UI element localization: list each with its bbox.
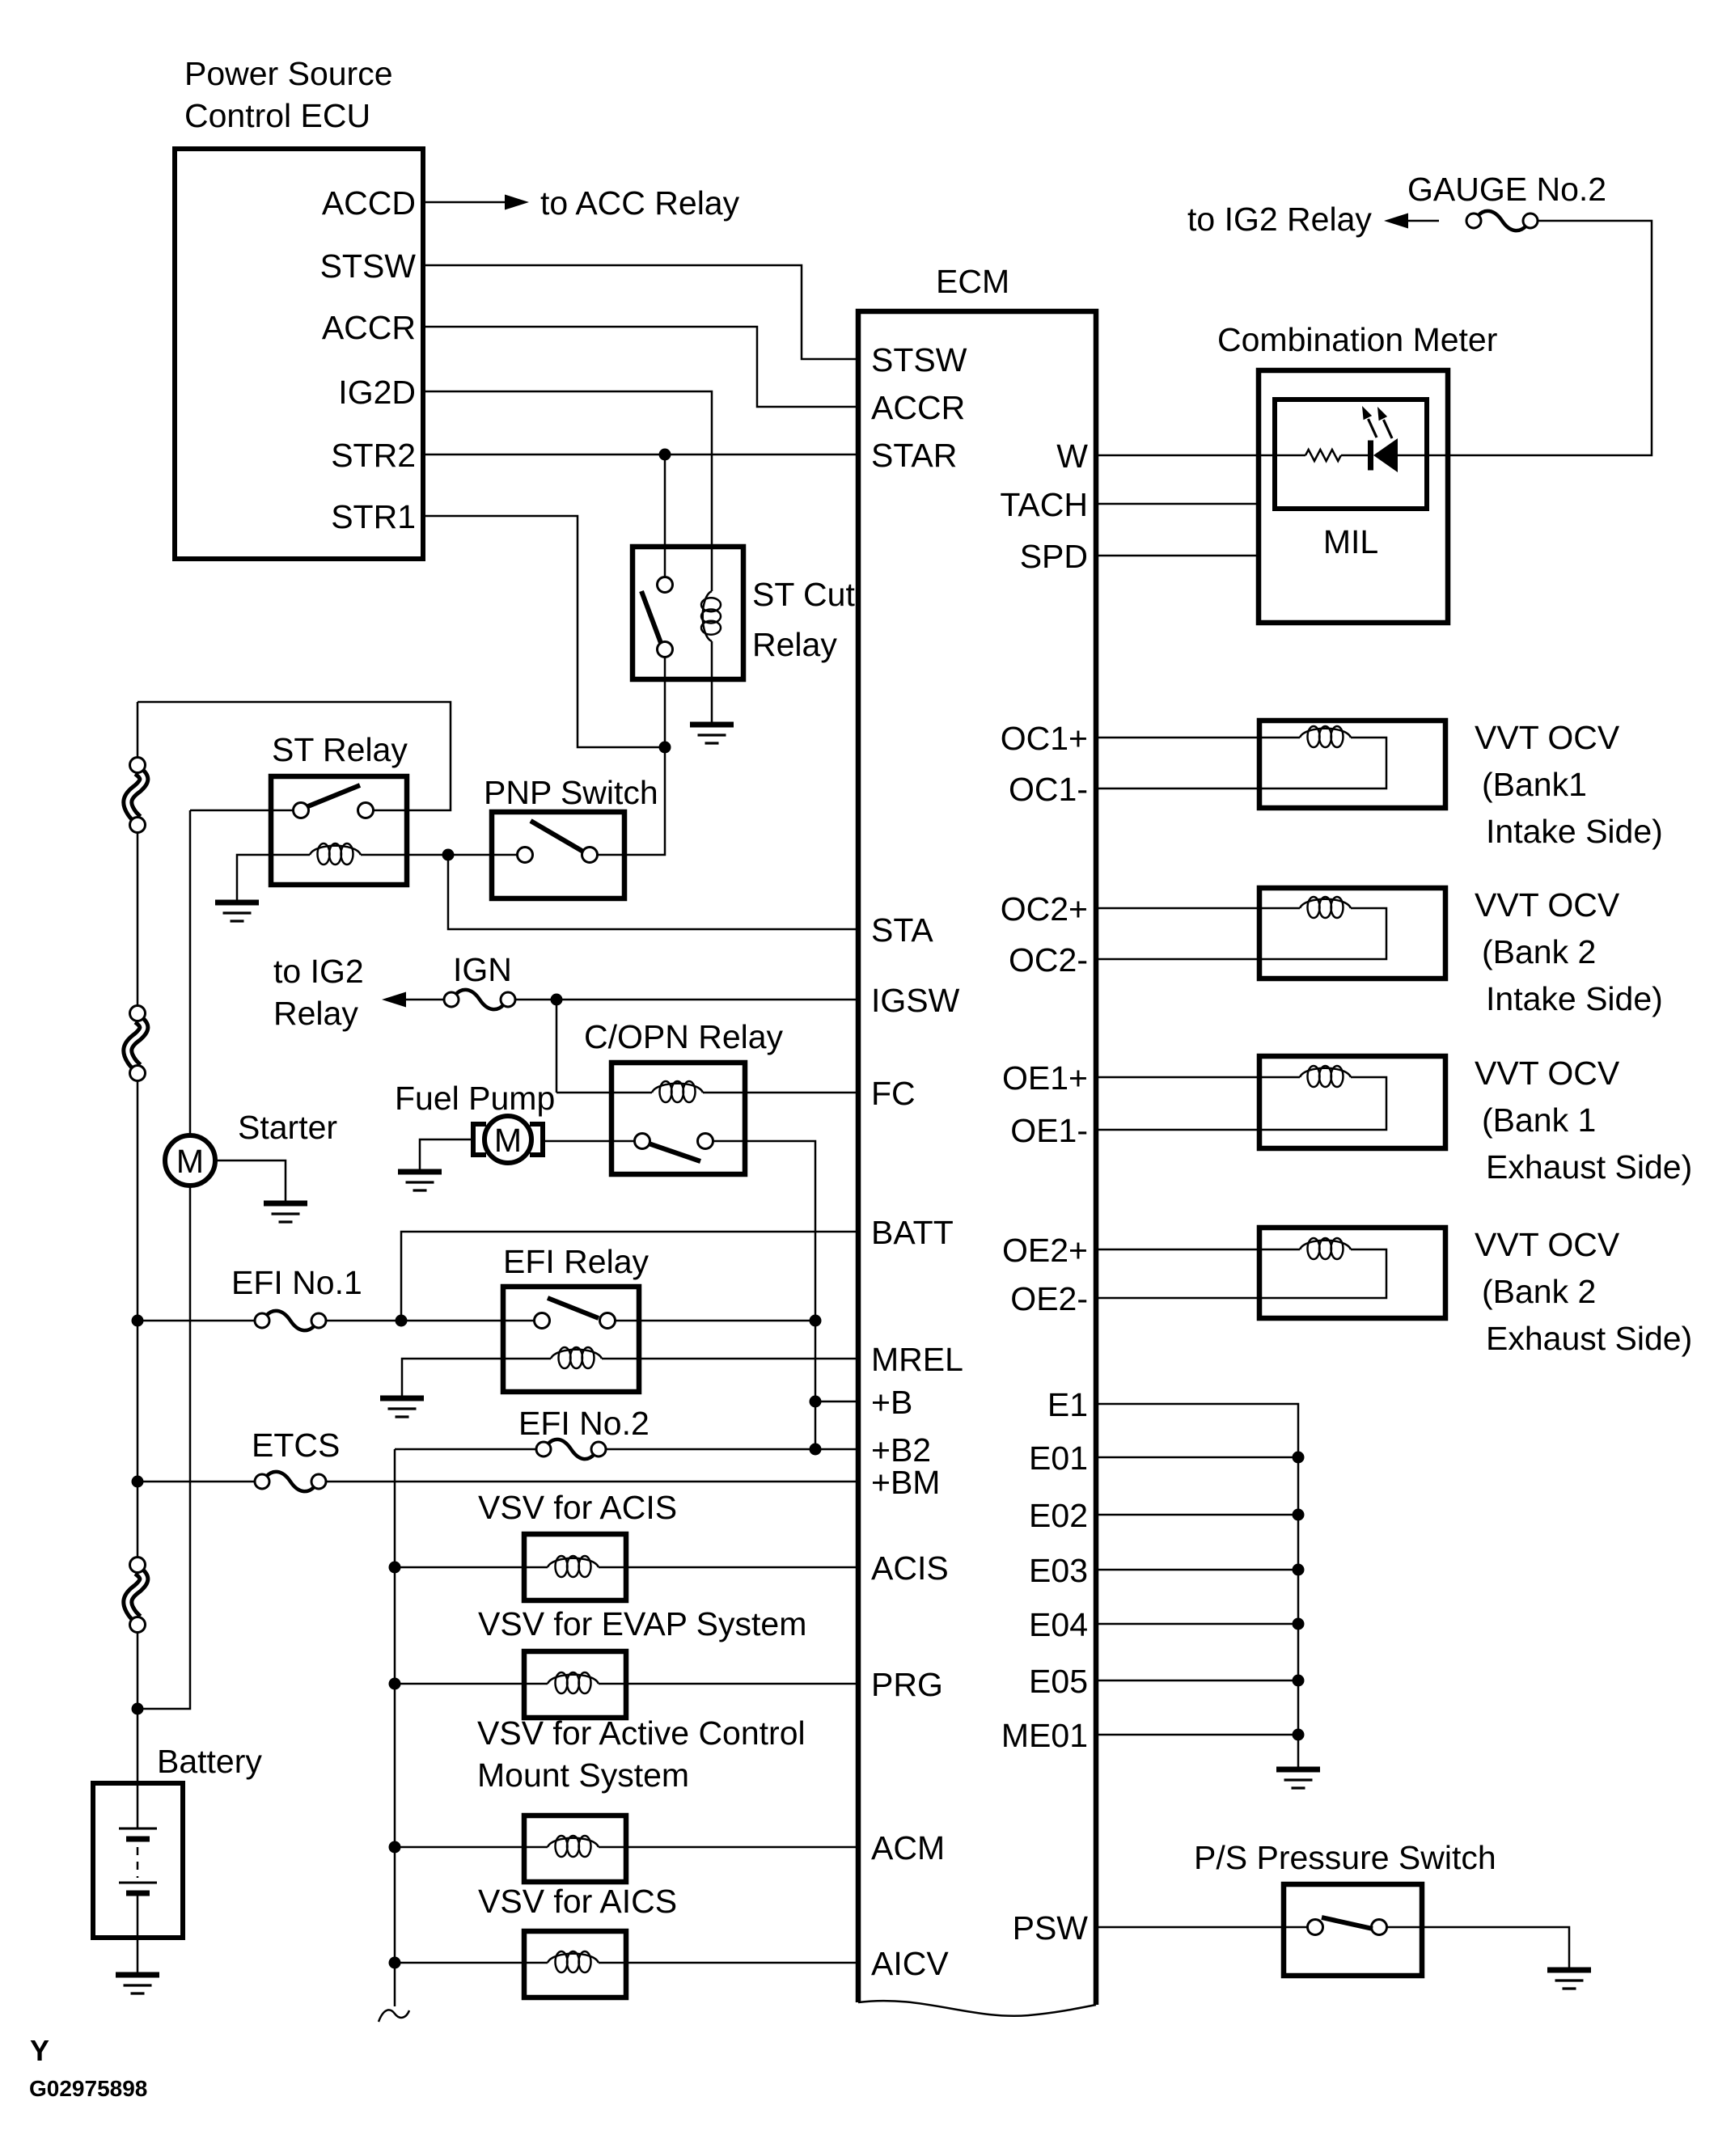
wire SPD to meter (1096, 555, 1259, 557)
svg-text:EFI Relay: EFI Relay (503, 1243, 649, 1280)
svg-text:C/OPN Relay: C/OPN Relay (584, 1018, 784, 1055)
svg-text:VSV for Active Control: VSV for Active Control (477, 1714, 806, 1752)
wire OC/OE+ 3 (1096, 1076, 1300, 1079)
svg-text:Y: Y (30, 2034, 49, 2067)
wire OC/OE+ 1 (1096, 737, 1300, 739)
wire MREL to ECM (602, 1358, 856, 1360)
svg-text:Intake Side): Intake Side) (1486, 980, 1663, 1017)
wire EFI No.1 to EFI Relay (327, 1320, 535, 1322)
svg-text:STSW: STSW (871, 341, 967, 378)
junction IGSW / C-OPN coil (551, 994, 563, 1006)
svg-text:IG2D: IG2D (338, 374, 416, 411)
wire ST Relay switch to starter rail (190, 810, 294, 812)
svg-text:STSW: STSW (320, 247, 417, 285)
wire IGSW left (404, 999, 443, 1001)
junction rail / ETCS (132, 1476, 144, 1488)
VVT OCV 4 box (1259, 1228, 1445, 1318)
wire VSV for ACM to ECM (599, 1846, 856, 1849)
junction E05 (1293, 1675, 1305, 1687)
svg-text:PRG: PRG (871, 1666, 943, 1703)
wire OC/OE- 1 (1096, 788, 1259, 790)
wire rail segment (137, 1081, 139, 1557)
svg-text:EFI No.2: EFI No.2 (518, 1405, 650, 1442)
svg-text:STR1: STR1 (331, 498, 416, 535)
wire OC/OE- 2 (1096, 958, 1259, 961)
wire +B2 stub (815, 1448, 856, 1451)
VVT OCV 3 coil (1300, 1066, 1351, 1087)
wire C/OPN switch to fuel pump (543, 1140, 635, 1143)
svg-text:(Bank 2: (Bank 2 (1482, 933, 1596, 970)
svg-text:VVT OCV: VVT OCV (1475, 886, 1620, 924)
junction VSV AICV (389, 1957, 401, 1969)
wire OC/OE+ 4 (1096, 1249, 1300, 1251)
wire STR2 to ECM STAR (423, 454, 856, 456)
wire junction to PNP Switch (598, 747, 666, 855)
wire E02 (1096, 1514, 1298, 1516)
P/S Pressure Switch contacts (1308, 1920, 1323, 1935)
wire resistor to LED (1341, 454, 1368, 457)
junction STR1 / ST Cut Relay switch / PNP (659, 742, 671, 754)
wire STA to ECM (448, 855, 856, 929)
svg-text:ME01: ME01 (1001, 1717, 1088, 1754)
torn wire end (379, 2010, 409, 2022)
svg-text:ST Cut: ST Cut (752, 576, 855, 613)
wire VSV for ACIS to ECM (599, 1566, 856, 1569)
svg-text:ETCS: ETCS (252, 1427, 340, 1464)
wire E04 (1096, 1623, 1298, 1625)
svg-text:Fuel Pump: Fuel Pump (395, 1080, 555, 1117)
fusible link MAIN (upper) (128, 758, 146, 833)
EFI Relay switch (535, 1313, 550, 1329)
wire E01 (1096, 1456, 1298, 1459)
wire ETCS left (138, 1481, 254, 1483)
wire VSV for AICS to ECM (599, 1962, 856, 1964)
wire ST Relay coil to PNP Switch (361, 854, 518, 856)
wire W right segment (1407, 220, 1439, 222)
svg-text:ECM: ECM (936, 263, 1009, 300)
svg-text:Power Source: Power Source (184, 55, 393, 92)
wire ME01 (1096, 1734, 1298, 1736)
wire W loop (1398, 221, 1652, 455)
EFI Relay coil (551, 1347, 602, 1368)
VSV for ACM coil (548, 1836, 599, 1857)
wire ST Cut Relay coil to ground (711, 641, 713, 722)
wire VVT 1 internal return (1259, 738, 1386, 788)
svg-text:OE2+: OE2+ (1002, 1232, 1088, 1269)
svg-text:E01: E01 (1029, 1439, 1088, 1477)
junction E01 (1293, 1452, 1305, 1464)
junction VSV ACM (389, 1841, 401, 1854)
junction STR2 / ST Cut Relay (659, 449, 671, 461)
svg-text:TACH: TACH (1000, 486, 1088, 523)
ground ST Cut Relay (690, 725, 734, 743)
svg-text:VSV for EVAP System: VSV for EVAP System (478, 1605, 806, 1642)
svg-text:Starter: Starter (238, 1109, 337, 1146)
svg-text:VVT OCV: VVT OCV (1475, 1226, 1620, 1263)
svg-text:ACM: ACM (871, 1829, 945, 1866)
ground EFI Relay (380, 1398, 424, 1417)
VVT OCV 1 coil (1300, 726, 1351, 747)
junction rail / starter branch (132, 1703, 144, 1715)
wire starter branch (138, 1186, 190, 1709)
wire VSV supply column (394, 1449, 396, 2006)
arrow to ACC Relay (505, 195, 529, 210)
wire VSV for ACIS left (395, 1566, 548, 1569)
ECM box (858, 311, 1096, 2005)
svg-text:Relay: Relay (752, 626, 837, 663)
VSV for ACIS coil (548, 1556, 599, 1577)
svg-text:STR2: STR2 (331, 437, 416, 474)
junction BATT riser (396, 1315, 408, 1327)
VVT OCV 4 coil (1300, 1238, 1351, 1259)
junction STA (442, 849, 455, 861)
svg-text:VSV for AICS: VSV for AICS (478, 1883, 677, 1920)
svg-text:PNP Switch: PNP Switch (484, 774, 658, 811)
battery cells (119, 1828, 157, 1893)
svg-text:ACCD: ACCD (322, 184, 416, 222)
ST Relay coil (310, 843, 361, 865)
junction E04 (1293, 1618, 1305, 1630)
wire EFI No.2 to +B2 (607, 1448, 815, 1451)
wire to C/OPN coil (556, 1000, 558, 1093)
svg-text:Battery: Battery (157, 1743, 262, 1780)
svg-text:M: M (176, 1143, 204, 1180)
svg-text:Exhaust Side): Exhaust Side) (1486, 1320, 1692, 1357)
svg-text:EFI No.1: EFI No.1 (231, 1264, 362, 1301)
svg-text:GAUGE No.2: GAUGE No.2 (1407, 171, 1606, 208)
wire VVT 3 internal return (1259, 1077, 1386, 1130)
wire W from ECM (1096, 454, 1305, 457)
wire STSW to ECM (423, 265, 856, 359)
svg-text:OC1-: OC1- (1009, 771, 1088, 808)
svg-text:Relay: Relay (273, 995, 358, 1032)
VVT OCV 1 box (1259, 721, 1445, 808)
ST Relay box (271, 776, 407, 885)
VSV for AICS coil (548, 1951, 599, 1972)
LED light arrows (1362, 406, 1392, 438)
ground battery (116, 1975, 159, 1993)
svg-text:OC2+: OC2+ (1001, 890, 1088, 928)
junction E02 (1293, 1509, 1305, 1521)
junction VSV ACIS (389, 1562, 401, 1574)
wire E1 and ground bus (1096, 1404, 1298, 1767)
wire battery rail top to ST Relay switch (138, 702, 451, 810)
wire STR1 (423, 516, 665, 747)
wire starter to ST Relay switch (189, 810, 192, 1135)
C/OPN Relay box (611, 1063, 745, 1174)
VSV for EVAP System coil (548, 1672, 599, 1693)
svg-text:+BM: +BM (871, 1464, 940, 1501)
arrow to IG2 Relay (right) (1384, 213, 1408, 229)
wire VVT 4 internal return (1259, 1249, 1386, 1298)
svg-text:FC: FC (871, 1075, 916, 1112)
svg-text:(Bank 2: (Bank 2 (1482, 1273, 1596, 1310)
wire ACCR to ECM (423, 327, 856, 407)
svg-text:PSW: PSW (1013, 1909, 1089, 1947)
junction E03 (1293, 1564, 1305, 1576)
wire VVT 2 internal return (1259, 908, 1386, 959)
svg-text:Intake Side): Intake Side) (1486, 813, 1663, 850)
wire OC/OE- 4 (1096, 1297, 1259, 1300)
svg-text:G02975898: G02975898 (29, 2076, 147, 2101)
wire BATT to ECM (401, 1232, 856, 1321)
fuse EFI No.2 (536, 1439, 606, 1459)
junction VSV PRG (389, 1678, 401, 1690)
svg-text:E1: E1 (1047, 1386, 1088, 1423)
resistor MIL (1305, 450, 1341, 461)
wire starter to ground (215, 1160, 286, 1201)
EFI Relay box (503, 1287, 639, 1392)
junction +B rail / EFI No.1 (810, 1315, 822, 1327)
VSV for AICS box (524, 1931, 626, 1997)
wire IG2D to ST Cut Relay coil (423, 391, 712, 591)
svg-text:ACCR: ACCR (871, 389, 965, 426)
svg-text:P/S Pressure Switch: P/S Pressure Switch (1194, 1839, 1496, 1876)
ground starter (264, 1203, 307, 1222)
svg-text:to IG2: to IG2 (273, 953, 364, 990)
wire rail to battery (137, 1633, 139, 1828)
Combination Meter box (1259, 370, 1448, 623)
wire +B stub (815, 1401, 856, 1403)
wire EFI No.1 left (138, 1320, 254, 1322)
svg-text:to ACC Relay: to ACC Relay (540, 184, 740, 222)
wire EFI Relay coil to ground (402, 1359, 551, 1396)
fuel pump motor M (473, 1116, 543, 1163)
wire E05 (1096, 1680, 1298, 1682)
junction +B (810, 1396, 822, 1408)
svg-text:STA: STA (871, 911, 933, 949)
wire rail segment (137, 702, 139, 757)
svg-text:+B: +B (871, 1384, 912, 1421)
wire fuel pump to ground (420, 1139, 473, 1169)
svg-text:(Bank1: (Bank1 (1482, 766, 1587, 803)
ground ECM E-block (1276, 1769, 1320, 1788)
Battery box (93, 1783, 183, 1938)
VSV for ACIS box (524, 1534, 626, 1600)
svg-text:ACCR: ACCR (322, 309, 416, 346)
C/OPN Relay switch (635, 1134, 650, 1149)
junction rail / EFI No.1 (132, 1315, 144, 1327)
wire battery to ground (137, 1893, 139, 1972)
C/OPN Relay coil (652, 1081, 703, 1102)
svg-text:(Bank 1: (Bank 1 (1482, 1101, 1596, 1139)
ST Relay switch (294, 803, 309, 818)
wire E03 (1096, 1569, 1298, 1571)
LED MIL (1371, 438, 1399, 472)
PNP Switch box (492, 812, 624, 898)
svg-text:MREL: MREL (871, 1341, 963, 1378)
wire EFI Relay switch to +B rail (616, 1320, 816, 1322)
starter motor M (165, 1135, 215, 1186)
svg-text:Exhaust Side): Exhaust Side) (1486, 1148, 1692, 1186)
wire ACCD (423, 201, 506, 204)
wire FC to ECM (703, 1092, 856, 1094)
svg-text:ACIS: ACIS (871, 1549, 949, 1587)
VSV for ACM box (524, 1816, 626, 1882)
wire VSV for AICS left (395, 1962, 548, 1964)
svg-text:VVT OCV: VVT OCV (1475, 719, 1620, 756)
svg-text:MIL: MIL (1323, 523, 1378, 560)
svg-text:OC2-: OC2- (1009, 941, 1088, 979)
wire PSW to switch (1096, 1926, 1308, 1929)
svg-text:Mount System: Mount System (477, 1757, 689, 1794)
svg-text:E04: E04 (1029, 1606, 1088, 1643)
VSV for EVAP System box (524, 1651, 626, 1718)
junction +B2 (810, 1444, 822, 1456)
svg-text:M: M (494, 1122, 522, 1159)
svg-text:AICV: AICV (871, 1945, 949, 1982)
fuse GAUGE No.2 (1466, 211, 1538, 230)
wire +BM to ECM (327, 1481, 856, 1483)
wire OC/OE+ 2 (1096, 907, 1300, 910)
fuse ETCS (255, 1472, 326, 1491)
fusible link (second) (128, 1006, 146, 1081)
fusible link (lower) (128, 1558, 146, 1633)
svg-text:IGN: IGN (453, 951, 512, 988)
wire IGSW to ECM (516, 999, 856, 1001)
svg-text:E02: E02 (1029, 1497, 1088, 1534)
VVT OCV 2 coil (1300, 897, 1351, 918)
svg-text:Combination Meter: Combination Meter (1217, 321, 1497, 358)
svg-text:OE1+: OE1+ (1002, 1059, 1088, 1097)
wire VSV for EVAP System left (395, 1683, 548, 1685)
ground fuel pump (398, 1172, 442, 1190)
wire ST Relay coil to ground (237, 855, 310, 900)
svg-text:W: W (1056, 438, 1088, 475)
svg-text:BATT: BATT (871, 1214, 954, 1251)
wire VSV for EVAP System to ECM (599, 1683, 856, 1685)
svg-text:IGSW: IGSW (871, 982, 960, 1019)
fuse IGN (444, 990, 515, 1009)
ground P/S switch (1547, 1970, 1591, 1989)
svg-text:OC1+: OC1+ (1001, 720, 1088, 757)
wire OC/OE- 3 (1096, 1129, 1259, 1131)
arrow to IG2 Relay (left) (382, 992, 406, 1008)
svg-text:SPD: SPD (1020, 538, 1088, 575)
wire P/S switch to ground (1387, 1927, 1570, 1968)
svg-text:OE2-: OE2- (1010, 1280, 1088, 1317)
VVT OCV 3 box (1259, 1056, 1445, 1148)
svg-text:VVT OCV: VVT OCV (1475, 1055, 1620, 1092)
svg-text:VSV for ACIS: VSV for ACIS (478, 1489, 677, 1526)
wire EFI No.2 left (395, 1448, 535, 1451)
PNP Switch contacts (518, 848, 533, 863)
P/S Pressure Switch box (1284, 1884, 1422, 1976)
svg-text:OE1-: OE1- (1010, 1112, 1088, 1149)
svg-text:STAR: STAR (871, 437, 957, 474)
VVT OCV 2 box (1259, 888, 1445, 979)
svg-text:E05: E05 (1029, 1663, 1088, 1700)
svg-text:E03: E03 (1029, 1552, 1088, 1589)
Power Source Control ECU box (175, 149, 423, 559)
svg-text:Control ECU: Control ECU (184, 97, 370, 134)
ST Cut Relay switch (664, 454, 666, 577)
fuse EFI No.1 (255, 1311, 326, 1330)
wire C/OPN switch to +B rail (713, 1141, 816, 1449)
wire ST Cut Relay switch to junction (664, 657, 666, 748)
wire TACH to meter (1096, 503, 1259, 505)
ST Cut Relay coil (701, 591, 721, 641)
svg-text:ST Relay: ST Relay (272, 731, 408, 768)
svg-text:to IG2 Relay: to IG2 Relay (1187, 201, 1372, 238)
wire VSV for ACM left (395, 1846, 548, 1849)
MIL box (1275, 399, 1427, 509)
ground ST Relay (215, 903, 259, 921)
junction ME01 (1293, 1729, 1305, 1741)
ST Cut Relay box (633, 547, 743, 679)
wire rail segment (137, 833, 139, 1005)
wire into C/OPN coil (556, 1092, 652, 1094)
